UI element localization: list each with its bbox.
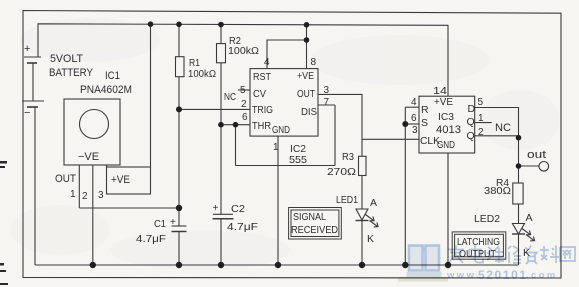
svg-text:D: D — [468, 103, 476, 115]
svg-text:www.: www. — [446, 270, 481, 281]
svg-text:K: K — [367, 233, 374, 245]
svg-text:IC1: IC1 — [105, 70, 120, 82]
svg-text:A: A — [370, 197, 377, 209]
svg-text:+VE: +VE — [434, 96, 453, 108]
svg-text:RST: RST — [253, 71, 272, 83]
svg-text:380Ω: 380Ω — [484, 185, 511, 197]
svg-text:NC: NC — [224, 92, 236, 103]
svg-text:+VE: +VE — [297, 70, 314, 82]
svg-text:1: 1 — [70, 189, 76, 200]
svg-text:CV: CV — [253, 88, 266, 100]
svg-text:+: + — [24, 43, 30, 55]
svg-text:THR: THR — [252, 120, 271, 132]
svg-text:270Ω: 270Ω — [327, 166, 356, 178]
svg-text:5VOLT: 5VOLT — [50, 53, 83, 65]
svg-text:100kΩ: 100kΩ — [228, 45, 259, 57]
svg-text:RECEIVED: RECEIVED — [291, 224, 338, 236]
svg-text:GND: GND — [272, 124, 290, 136]
svg-text:4: 4 — [264, 57, 270, 68]
svg-text:2: 2 — [241, 99, 247, 110]
svg-text:out: out — [527, 149, 546, 161]
svg-text:R3: R3 — [342, 151, 354, 163]
svg-text:3: 3 — [412, 125, 418, 136]
svg-text:Q: Q — [467, 130, 475, 142]
svg-text:5: 5 — [240, 85, 246, 96]
svg-text:5: 5 — [478, 97, 484, 108]
svg-text:7: 7 — [324, 97, 330, 108]
svg-text:BATTERY: BATTERY — [49, 67, 94, 79]
svg-text:DIS: DIS — [301, 106, 317, 118]
svg-text:+: + — [213, 203, 219, 214]
svg-text:NC: NC — [495, 122, 511, 134]
svg-text:R: R — [421, 104, 429, 116]
svg-text:555: 555 — [289, 154, 307, 166]
svg-text:3: 3 — [324, 85, 330, 96]
svg-text:4: 4 — [411, 97, 417, 108]
svg-text:2: 2 — [82, 191, 88, 202]
svg-text:Q: Q — [467, 116, 475, 128]
svg-text:C1: C1 — [154, 218, 166, 230]
svg-text:6: 6 — [242, 112, 248, 123]
svg-text:LATCHING: LATCHING — [457, 236, 500, 248]
svg-text:SIGNAL: SIGNAL — [293, 211, 326, 223]
svg-text:OUT: OUT — [297, 88, 315, 100]
svg-text:OUT: OUT — [55, 173, 76, 185]
svg-text:8: 8 — [311, 57, 317, 68]
svg-text:A: A — [526, 212, 533, 224]
svg-text:LED1: LED1 — [336, 194, 358, 206]
svg-text:−VE: −VE — [78, 151, 99, 163]
svg-text:4.7μF: 4.7μF — [227, 221, 258, 233]
svg-text:1: 1 — [273, 142, 279, 153]
svg-text:4.7μF: 4.7μF — [136, 233, 166, 245]
svg-text:PNA4602M: PNA4602M — [80, 84, 132, 96]
svg-text:TRIG: TRIG — [252, 104, 273, 116]
svg-text:GND: GND — [437, 139, 455, 151]
svg-text:LED2: LED2 — [474, 213, 500, 225]
svg-text:.com: .com — [526, 270, 558, 281]
svg-text:C2: C2 — [231, 203, 245, 215]
svg-text:+VE: +VE — [111, 174, 130, 186]
svg-text:IC3: IC3 — [438, 111, 454, 123]
svg-text:4013: 4013 — [436, 124, 461, 136]
svg-text:6: 6 — [411, 113, 417, 124]
svg-text:520101: 520101 — [478, 268, 528, 282]
svg-text:100kΩ: 100kΩ — [188, 68, 216, 80]
svg-text:2: 2 — [478, 127, 484, 138]
svg-text:3: 3 — [98, 190, 104, 201]
svg-text:+: + — [170, 217, 176, 228]
svg-text:−: − — [24, 107, 30, 119]
svg-text:S: S — [421, 117, 428, 129]
svg-text:1: 1 — [478, 113, 484, 124]
